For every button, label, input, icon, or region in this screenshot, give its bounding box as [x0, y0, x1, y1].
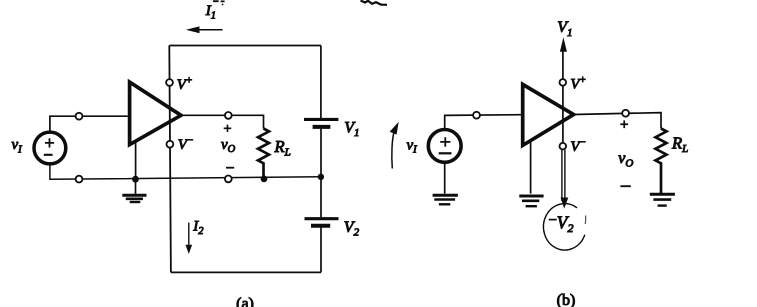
label - polarity of vO (a)	[226, 167, 234, 169]
wire: op-amp inverting reference lead down (b)	[530, 141, 532, 194]
caption (a)	[236, 296, 254, 307]
arrow I1 (pointing left above top rail)	[186, 26, 223, 33]
arrow: V2 down arrow with doubled shaft (b)	[561, 150, 569, 209]
label V1 (b)	[557, 19, 572, 39]
label + polarity of vO (b)	[620, 117, 628, 133]
ground under op-amp lead (b)	[519, 196, 543, 206]
wire: op-amp supply line vertical (b)	[562, 49, 564, 143]
label RL (b)	[671, 133, 688, 155]
resistor RL (b): zigzag	[656, 129, 667, 194]
label + polarity of vO (a)	[224, 122, 232, 137]
label V+ (b)	[570, 74, 585, 93]
label V1 (a)	[344, 120, 359, 140]
wire: op-amp supply line vertical (top rail to bottom rail)	[169, 46, 171, 273]
label I1 with overbar marks	[205, 1, 225, 21]
wire: source bottom lead (b)	[444, 162, 446, 193]
wire: source top to op-amp input	[50, 116, 128, 132]
stray scribble top edge	[361, 1, 388, 5]
wire: bottom rail (a)	[171, 271, 321, 273]
label V+ (a)	[177, 74, 192, 93]
arrow: V1 up arrow (b)	[560, 37, 567, 52]
node: junction dot at ground tap	[132, 176, 139, 183]
terminal: V- pin circle (a)	[167, 141, 174, 148]
terminal: V+ pin circle (b)	[560, 79, 567, 86]
ground under source (b)	[433, 195, 458, 204]
label vO (a)	[221, 137, 236, 155]
arrow: curved reference arrow left of vI (b)	[390, 122, 399, 169]
ground (a)	[122, 179, 146, 202]
terminal: V- pin circle (b)	[560, 143, 567, 150]
ground under RL (b)	[650, 194, 675, 205]
node: junction dot at resistor bottom (a)	[261, 176, 268, 183]
terminal: open circle on bottom wire left	[76, 176, 83, 183]
terminal: open circle on mid rail below vO (a)	[225, 176, 232, 183]
label vI (a)	[12, 137, 23, 155]
terminal: open circle on output wire (a)	[225, 112, 232, 119]
resistor RL (a): zigzag	[258, 129, 269, 179]
wire: op-amp output to load corner (b)	[574, 113, 661, 129]
label V2 (a)	[344, 219, 360, 239]
battery V1 (a)	[304, 119, 338, 127]
terminal: V+ pin circle (a)	[166, 79, 173, 86]
label RL (a)	[274, 137, 291, 159]
wire: op-amp reference lead down from triangle bottom edge	[135, 141, 137, 179]
wire: source top to op-amp input (b)	[445, 115, 522, 130]
label V- (b)	[570, 137, 585, 156]
wire: output of op-amp to load corner	[181, 115, 264, 128]
op-amp A2 (b): triangle	[523, 84, 574, 145]
wire: top rail from V+ line to V1 battery	[169, 45, 321, 47]
svg-text:+: +	[224, 122, 232, 137]
label V- (a)	[178, 135, 193, 154]
source vI (a): circle symbol	[34, 132, 66, 164]
node: junction of batteries with mid rail (a)	[318, 174, 324, 180]
svg-text:(a): (a)	[236, 296, 254, 307]
battery V2 (a)	[305, 219, 339, 226]
terminal: open circle on input wire (b)	[473, 112, 480, 119]
label vI (b)	[407, 137, 418, 155]
label I2	[192, 219, 204, 238]
svg-text:−: −	[549, 213, 557, 229]
svg-text:+: +	[620, 117, 628, 133]
label vO (b)	[618, 150, 633, 170]
terminal: open circle on top input wire	[76, 113, 83, 120]
wire: battery stack vertical (a)	[320, 46, 322, 273]
svg-text:(b): (b)	[557, 292, 576, 307]
wire: source bottom + mid rail to supply junction	[50, 164, 321, 179]
source vI (b): circle symbol	[428, 130, 461, 163]
label -V2 circled annotation (b)	[543, 204, 585, 250]
label - polarity of vO (b)	[620, 185, 630, 187]
arrow I2 (pointing down)	[186, 223, 193, 254]
op-amp A1 (a): triangle	[130, 82, 181, 145]
caption (b)	[557, 292, 576, 307]
terminal: open circle on output wire (b)	[622, 110, 629, 117]
